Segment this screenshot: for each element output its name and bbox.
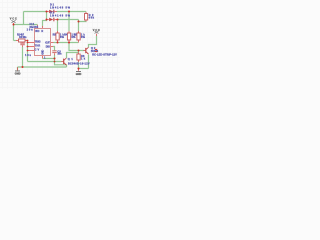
svg-text:BC546B-16-12V: BC546B-16-12V xyxy=(68,63,90,66)
background xyxy=(0,0,120,89)
svg-text:Q1: Q1 xyxy=(68,58,74,61)
wire corner up xyxy=(23,12,25,25)
svg-text:VCC: VCC xyxy=(10,17,17,20)
pin IC OUT xyxy=(51,42,54,44)
pin R5 bottom xyxy=(78,40,80,43)
resistor R1 xyxy=(19,39,26,42)
wire to R1 xyxy=(14,40,17,42)
pin IC TRIG xyxy=(28,42,34,44)
pin IC THR xyxy=(28,46,34,48)
pin R2 top xyxy=(85,12,87,14)
svg-text:68k: 68k xyxy=(89,16,95,19)
node VCC junction xyxy=(13,24,15,26)
pin R6 bottom xyxy=(78,60,80,62)
wire drop to R3 xyxy=(57,20,59,32)
wire VCC rail to IC top pin xyxy=(14,24,38,26)
node TRIG xyxy=(27,42,29,44)
pin R4 top xyxy=(68,31,70,33)
pin D2 right xyxy=(55,19,57,21)
wire diode2 row xyxy=(57,19,79,21)
svg-text:GND: GND xyxy=(41,50,44,55)
wires green xyxy=(14,12,97,71)
node OUT R4 xyxy=(68,42,70,44)
svg-text:1N4148 5%: 1N4148 5% xyxy=(50,7,71,10)
pin R5 top xyxy=(78,31,80,33)
capacitor C3 plates xyxy=(52,49,56,52)
svg-text:R: R xyxy=(41,30,43,33)
node cap rail xyxy=(22,66,24,68)
wire VCC down left xyxy=(13,25,15,41)
node D2 anode xyxy=(46,19,48,21)
pin cap C2 top xyxy=(22,41,24,43)
wire drop to R5 xyxy=(78,20,80,32)
wire Q2 emitter down xyxy=(88,55,90,69)
node R1 out xyxy=(27,40,29,42)
pin IC top RESET xyxy=(42,26,44,28)
node OUT R3 xyxy=(57,42,59,44)
svg-text:GND: GND xyxy=(76,73,82,76)
svg-text:1k: 1k xyxy=(81,58,86,61)
resistor R3 xyxy=(56,33,59,40)
pin R6 top xyxy=(78,52,80,54)
node THR xyxy=(27,46,29,48)
resistor R5 xyxy=(77,33,80,40)
IC U1 555 box xyxy=(35,29,51,56)
svg-text:10n: 10n xyxy=(57,53,62,56)
node D1 cathode rail xyxy=(68,11,70,13)
resistor R2 xyxy=(85,14,88,21)
capacitor C2 plates xyxy=(20,42,25,45)
pin VCC1 stub xyxy=(13,23,15,25)
svg-text:DIS: DIS xyxy=(46,45,50,48)
pin cap C3 bottom xyxy=(54,53,56,55)
node GND2 rail xyxy=(78,68,80,70)
node CV xyxy=(27,50,29,52)
svg-text:VCC: VCC xyxy=(35,30,40,33)
svg-text:10n: 10n xyxy=(27,29,33,32)
VCC1 symbol xyxy=(11,20,15,23)
pin R2 bottom xyxy=(85,20,87,22)
wire top rail y=11.5 xyxy=(24,11,47,13)
svg-text:TRIG: TRIG xyxy=(35,40,41,43)
wire R2 bottom L xyxy=(79,20,87,22)
pin VCC3 stub xyxy=(96,34,98,36)
pin IC CV xyxy=(28,50,34,52)
pin GND1 stub xyxy=(17,67,19,70)
pin R4 bottom xyxy=(68,40,70,43)
pin R3 bottom xyxy=(57,40,59,43)
wire IC gnd pin down right xyxy=(43,58,55,60)
wire diode anode vertical + jog to IC top pin 2 xyxy=(43,12,47,27)
transistor Q1 xyxy=(64,58,67,65)
pin R1 left xyxy=(16,40,18,42)
svg-text:C2 10n: C2 10n xyxy=(19,36,27,39)
svg-text:1N4148 5%: 1N4148 5% xyxy=(50,15,71,18)
pin D1 right xyxy=(55,11,57,13)
pin Q1 base xyxy=(61,61,63,63)
resistor R4 xyxy=(67,33,70,40)
pin D2 left xyxy=(47,19,49,21)
wire cap C2 down to rail xyxy=(22,47,24,67)
grid xyxy=(0,0,120,89)
wire bottom rail xyxy=(18,66,67,68)
wire Q1 collector up and right xyxy=(67,53,79,59)
red pin stubs xyxy=(14,12,97,71)
diode D2 xyxy=(49,18,54,22)
node D2 cathode xyxy=(57,19,59,21)
VCC3 symbol xyxy=(95,31,99,33)
pin Q2 base xyxy=(83,50,85,52)
ground GND2 bar xyxy=(76,70,81,73)
node D1 anode xyxy=(46,11,48,13)
wire R1 right to bus xyxy=(25,40,28,42)
pin IC top VCC xyxy=(37,25,39,29)
pin cap C2 bottom xyxy=(22,45,24,47)
wire R6 top pin xyxy=(78,51,80,53)
wire IC pin2 to cap xyxy=(53,47,55,51)
connector mark X1 xyxy=(95,49,97,52)
pin D1 left xyxy=(47,11,49,13)
wire R6 bottom pin xyxy=(78,62,80,69)
resistor R6 xyxy=(77,54,80,60)
wire bus to center drop xyxy=(28,61,62,63)
svg-text:OUT: OUT xyxy=(45,41,50,44)
junction dots xyxy=(13,11,80,70)
pin IC DIS right xyxy=(51,46,53,48)
wire out drop to Q2 base xyxy=(69,43,85,51)
pin IC GND bottom xyxy=(42,56,44,59)
transistor Q2 xyxy=(86,47,89,54)
svg-text:GND: GND xyxy=(15,72,21,75)
wire GND1 stub xyxy=(17,67,19,70)
wire diode1 out to R2 xyxy=(57,11,87,13)
svg-text:CV: CV xyxy=(35,48,40,51)
svg-text:THR: THR xyxy=(35,44,41,47)
ground GND1 bar xyxy=(15,70,20,73)
wire cap down / center vertical xyxy=(55,55,67,65)
wire OUT rail xyxy=(54,42,79,44)
wire Q1 emitter down xyxy=(66,65,68,67)
wire R2 top xyxy=(85,11,87,14)
pin R3 top xyxy=(57,31,59,33)
wire drop to R4 xyxy=(68,12,70,32)
pin GND2 stub xyxy=(78,69,80,71)
node Q2 base xyxy=(78,50,80,52)
svg-text:10u: 10u xyxy=(25,54,31,57)
node center gnd xyxy=(54,58,56,60)
wire bus vertical xyxy=(27,41,29,62)
node R2 bottom xyxy=(78,21,80,23)
svg-text:RC-LED-STRIP-12V: RC-LED-STRIP-12V xyxy=(92,53,117,56)
diode D1 xyxy=(49,10,54,14)
svg-text:VCC: VCC xyxy=(93,29,100,32)
wire Q2 collector up to VCC xyxy=(89,36,97,47)
pin R1 right xyxy=(25,40,27,42)
